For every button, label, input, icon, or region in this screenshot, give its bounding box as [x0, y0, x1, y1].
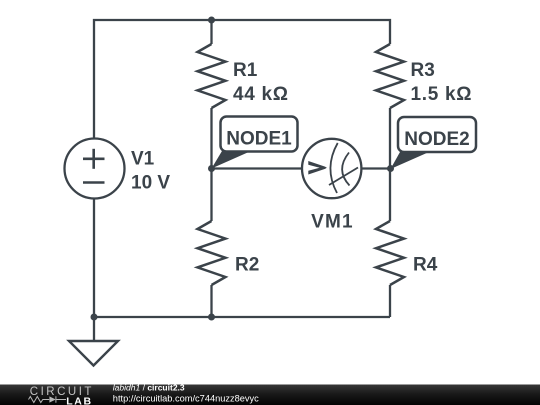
ground — [69, 341, 118, 366]
junction top rail / R1 — [208, 17, 215, 24]
junction node A (NODE1) — [208, 165, 215, 172]
svg-text:R2: R2 — [235, 255, 259, 276]
svg-text:labidh1 / circuit2.3: labidh1 / circuit2.3 — [113, 383, 185, 393]
svg-text:R3: R3 — [411, 60, 435, 81]
junction node B (NODE2) — [387, 165, 394, 172]
wire R4 bottom stub — [389, 285, 391, 317]
junction ground rail / V1 — [91, 314, 98, 321]
resistor R2 — [198, 221, 226, 285]
svg-text:V1: V1 — [131, 149, 155, 170]
svg-text:R4: R4 — [413, 255, 438, 276]
resistor R4 — [376, 221, 404, 285]
junction ground rail / R2 — [208, 314, 215, 321]
svg-text:R1: R1 — [233, 60, 258, 81]
svg-text:NODE2: NODE2 — [404, 129, 469, 150]
svg-text:10 V: 10 V — [131, 173, 170, 194]
svg-text:NODE1: NODE1 — [226, 129, 292, 150]
svg-text:VM1: VM1 — [311, 212, 354, 233]
wire R2 bottom stub — [210, 285, 212, 317]
svg-text:LAB: LAB — [66, 396, 92, 405]
wire NODE1 to voltmeter — [212, 167, 303, 169]
node NODE1 flag — [212, 151, 252, 169]
resistor R3 — [376, 44, 404, 108]
wire ground stub — [93, 317, 95, 341]
voltmeter VM1 — [302, 139, 361, 198]
node NODE2 flag — [391, 152, 430, 169]
wire R1 bottom to node A / R2 top — [210, 108, 212, 221]
resistor R1 — [198, 44, 226, 108]
logo resistor zigzag and wire — [29, 396, 67, 402]
wire voltmeter to NODE2 — [362, 167, 391, 169]
wire R3 bottom to node B / R4 top — [389, 108, 391, 221]
svg-text:1.5 kΩ: 1.5 kΩ — [411, 84, 473, 105]
svg-text:44 kΩ: 44 kΩ — [233, 84, 289, 105]
voltage source V1 — [65, 139, 125, 199]
wire top rail (V1 top to R3 top) — [94, 20, 390, 139]
wire V1 bottom to ground rail — [93, 199, 95, 318]
wire R1 top stub — [210, 20, 212, 44]
svg-text:http://circuitlab.com/c744nuzz: http://circuitlab.com/c744nuzz8evyc — [113, 394, 259, 404]
wire bottom rail — [94, 316, 390, 318]
logo diode — [49, 396, 55, 402]
